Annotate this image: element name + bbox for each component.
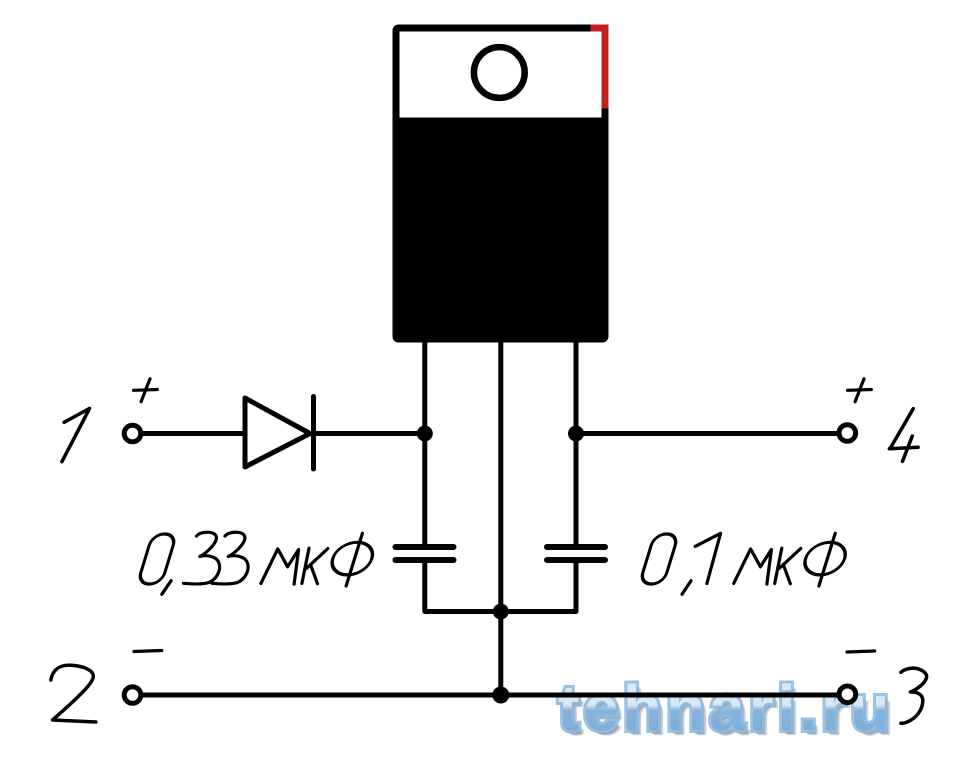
capacitor C1 0,33uF plates — [396, 547, 454, 560]
terminal 2 circle — [124, 687, 141, 704]
value label 0,1 mkF — [639, 533, 849, 594]
node B output junction — [568, 426, 584, 442]
label - at terminal 2 — [134, 651, 162, 652]
comma — [682, 581, 691, 595]
terminal 3 circle — [839, 686, 856, 703]
wire C1 bottom to common — [425, 560, 501, 612]
letter m — [734, 549, 772, 584]
wire output node to terminal 4 — [576, 431, 840, 436]
label + at terminal 1 — [134, 379, 158, 402]
digit 0 — [137, 534, 176, 584]
digit 3 — [212, 532, 248, 584]
letter F — [801, 542, 850, 575]
terminal label 3 — [901, 668, 927, 723]
diode VD1 — [245, 397, 314, 470]
U1 pin 3 leg (output) — [574, 341, 579, 547]
terminal label 2 — [51, 665, 96, 722]
U1 mounting hole — [474, 47, 525, 98]
terminal label 1 — [62, 408, 90, 461]
bottom wire terminal2 to terminal3 — [141, 693, 840, 698]
value label 0,33 mkF — [137, 532, 376, 594]
letter m — [261, 549, 299, 584]
node C common junction — [493, 604, 509, 620]
label + at terminal 4 — [848, 379, 872, 402]
label - at terminal 3 — [847, 651, 875, 652]
wire terminal1 to diode — [141, 431, 245, 436]
U1 pin 1 leg (input) — [422, 341, 427, 547]
node D ground junction — [492, 687, 509, 704]
watermark tehnari.ru — [558, 671, 893, 745]
U1 pin 2 leg (common) — [498, 341, 503, 695]
digit 0 — [639, 534, 678, 584]
terminal 4 circle — [839, 425, 856, 442]
terminal 1 circle — [124, 425, 141, 442]
U1 tab red edge mark — [591, 25, 609, 109]
digit 3 — [184, 532, 220, 584]
regulator U1 TO-220 package body — [393, 25, 609, 343]
wire C2 bottom to common — [501, 560, 576, 612]
digit 1 — [695, 533, 720, 583]
letter k — [775, 548, 801, 584]
capacitor C2 0,1uF plates — [547, 547, 605, 560]
letter F — [328, 542, 377, 575]
letter k — [302, 548, 328, 584]
comma — [162, 581, 171, 595]
node A input junction — [417, 426, 433, 442]
terminal label 4 — [889, 409, 918, 462]
wire diode to input node — [314, 431, 425, 436]
